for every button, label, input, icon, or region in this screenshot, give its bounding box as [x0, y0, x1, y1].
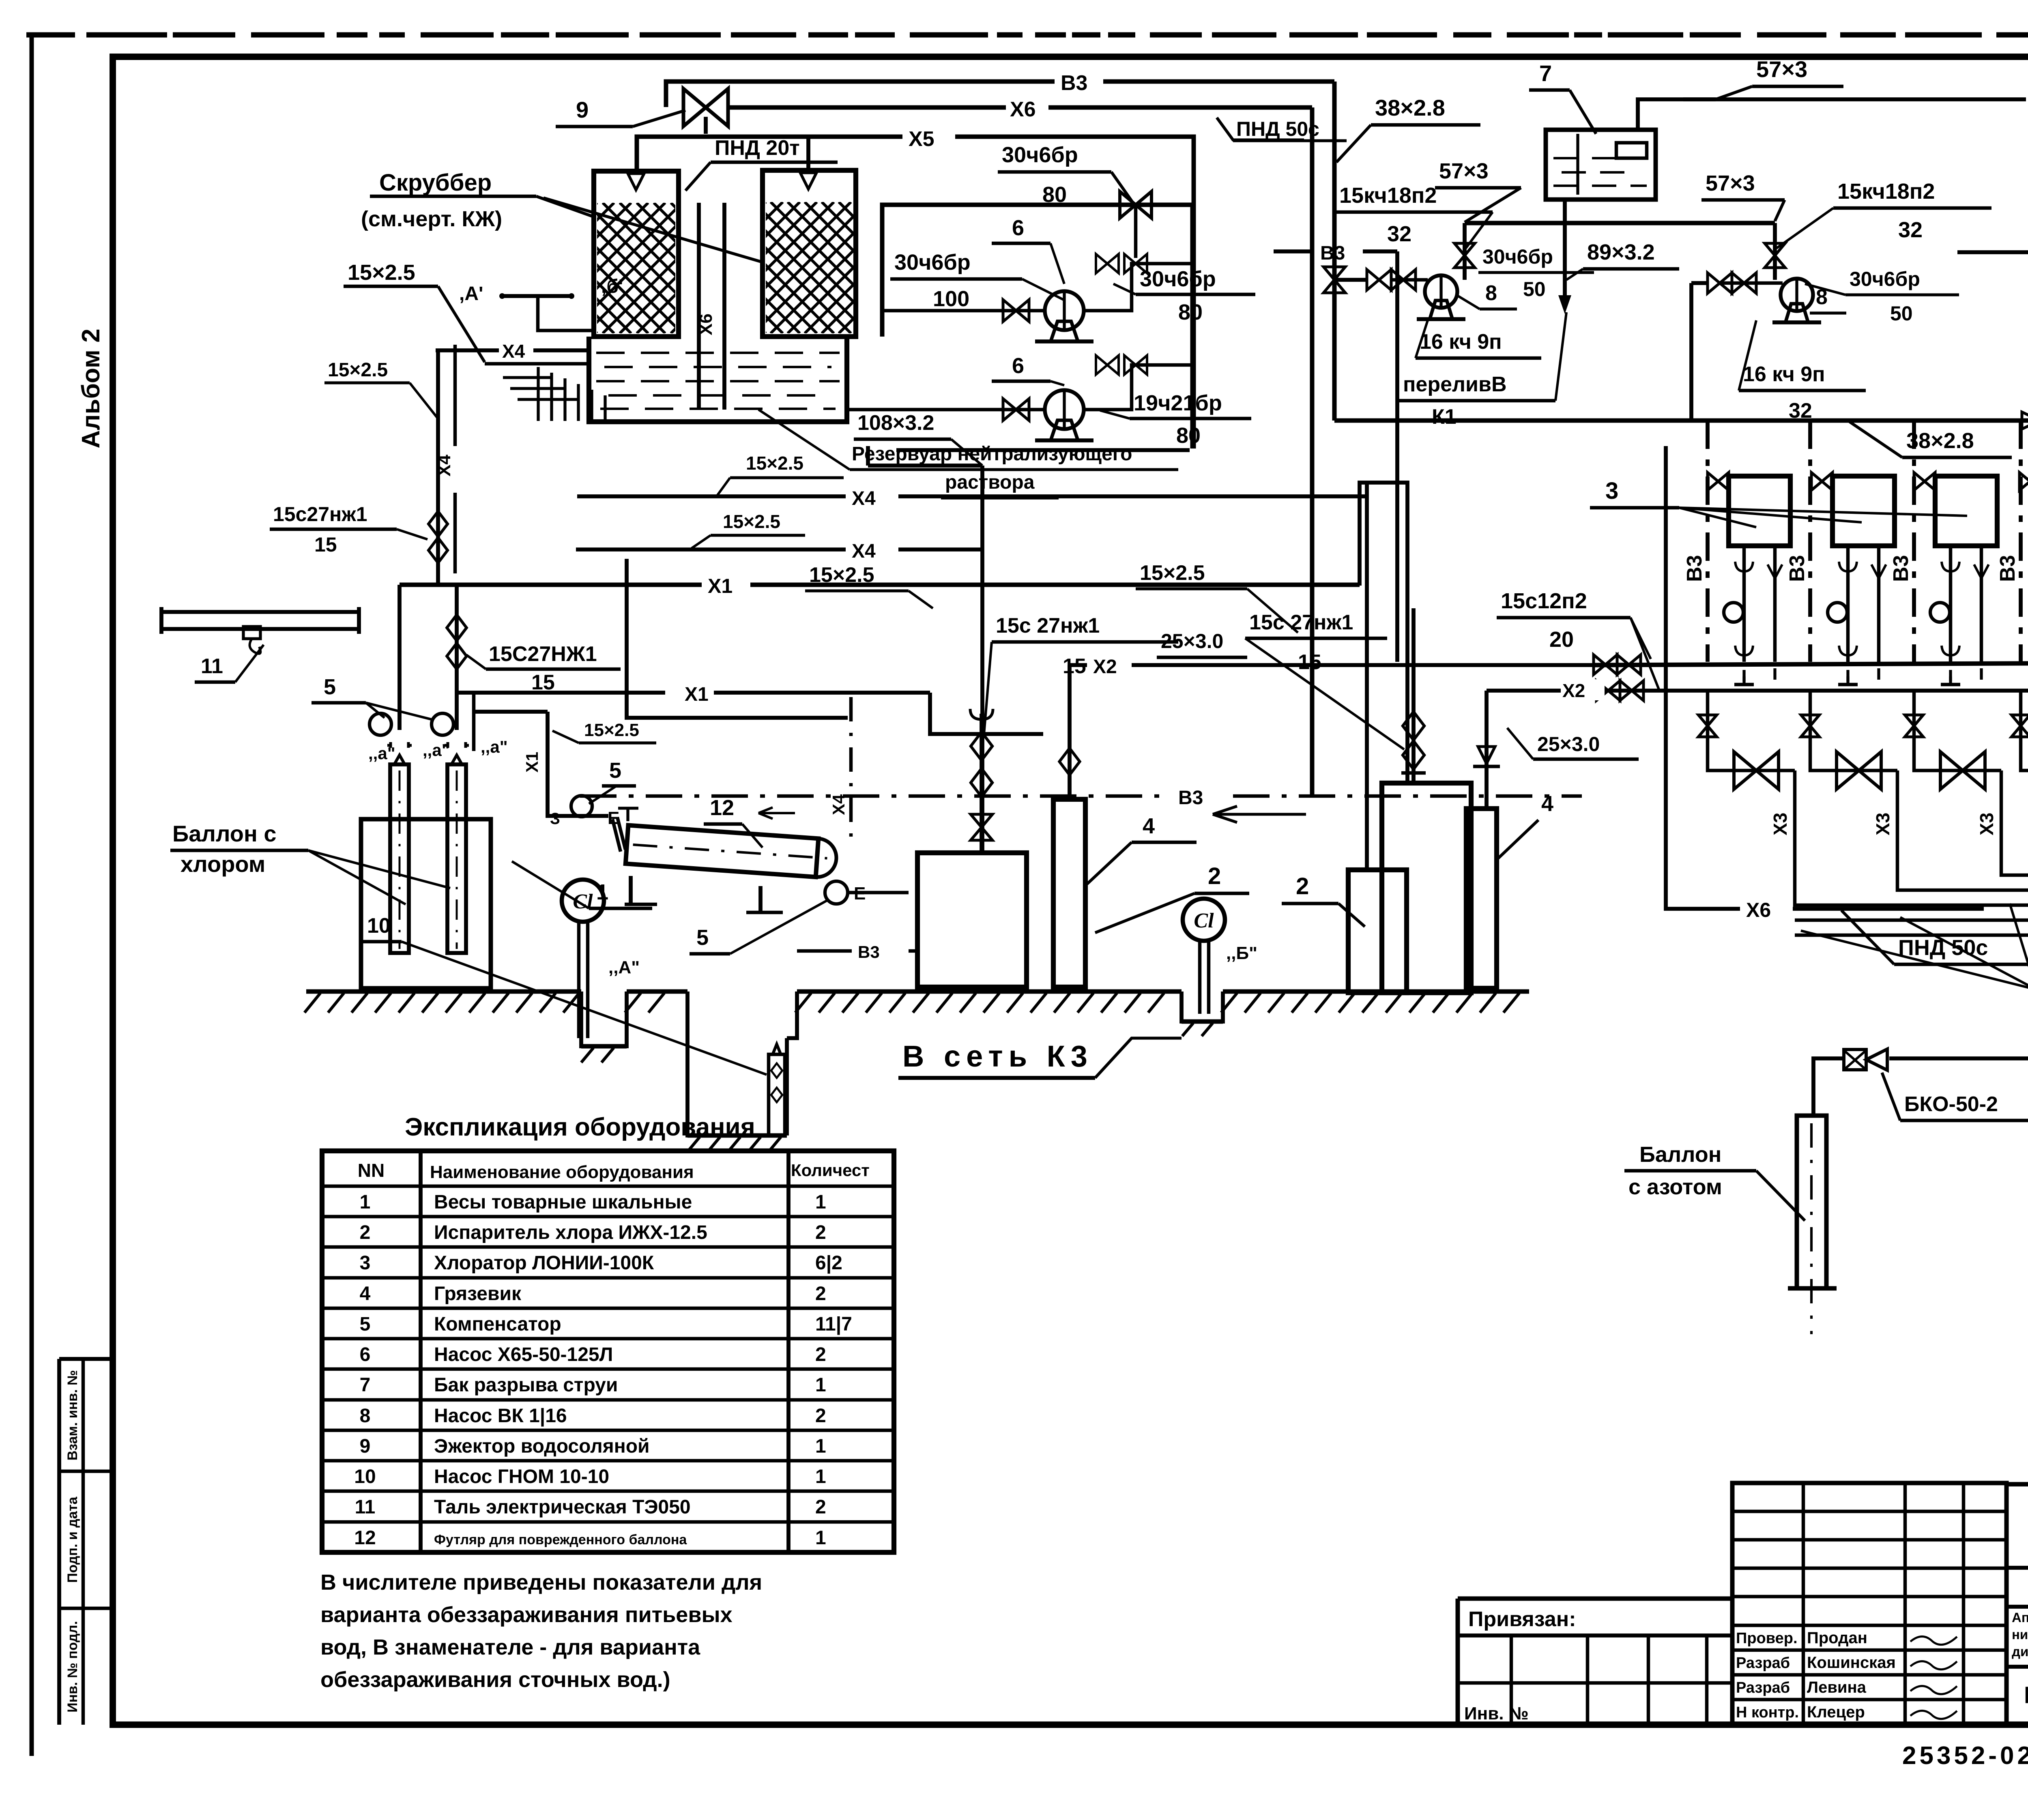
svg-text:25×3.0: 25×3.0	[1161, 630, 1223, 652]
svg-text:Разраб: Разраб	[1736, 1679, 1790, 1696]
svg-text:10: 10	[367, 914, 391, 938]
svg-text:15×2.5: 15×2.5	[746, 453, 803, 474]
svg-text:Х6: Х6	[1010, 98, 1036, 121]
svg-text:38×2.8: 38×2.8	[1906, 429, 1974, 453]
svg-text:В3: В3	[858, 942, 880, 962]
svg-text:8: 8	[1816, 285, 1828, 309]
svg-text:Принципиальная схема: Принципиальная схема	[2024, 1682, 2028, 1708]
svg-text:ния питьевых и сточных вод про: ния питьевых и сточных вод произво	[2012, 1627, 2028, 1642]
svg-text:Х4: Х4	[852, 488, 876, 509]
svg-text:108×3.2: 108×3.2	[857, 411, 934, 435]
svg-text:9: 9	[576, 97, 589, 122]
svg-text:32: 32	[1898, 218, 1923, 242]
svg-text:15: 15	[531, 671, 555, 694]
svg-text:8: 8	[360, 1405, 371, 1427]
svg-text:Наименование оборудования: Наименование оборудования	[430, 1162, 694, 1182]
svg-text:4: 4	[1143, 814, 1155, 838]
svg-text:переливВ: переливВ	[1403, 373, 1507, 396]
svg-text:15: 15	[314, 533, 337, 556]
svg-text:Н контр.: Н контр.	[1736, 1704, 1799, 1721]
svg-text:Х3: Х3	[1872, 813, 1893, 835]
svg-text:11: 11	[355, 1496, 376, 1518]
svg-text:ПНД 20т: ПНД 20т	[715, 136, 800, 160]
svg-text:Е: Е	[608, 808, 619, 828]
svg-text:NN: NN	[358, 1160, 385, 1181]
svg-text:Подп. и дата: Подп. и дата	[65, 1496, 80, 1583]
svg-text:2: 2	[815, 1344, 826, 1365]
svg-text:15×2.5: 15×2.5	[723, 511, 780, 532]
svg-text:хлором: хлором	[180, 851, 265, 877]
svg-text:4: 4	[360, 1283, 371, 1305]
svg-text:Х1: Х1	[522, 752, 541, 773]
svg-text:Таль электрическая ТЭ050: Таль электрическая ТЭ050	[434, 1496, 691, 1518]
svg-text:16 кч 9п: 16 кч 9п	[1420, 330, 1502, 354]
svg-text:Инв. № подл.: Инв. № подл.	[65, 1621, 80, 1713]
svg-text:Продан: Продан	[1807, 1629, 1867, 1647]
svg-text:57×3: 57×3	[1439, 159, 1489, 183]
svg-text:Инв. №: Инв. №	[1464, 1704, 1529, 1723]
svg-text:57×3: 57×3	[1706, 171, 1755, 195]
svg-text:11: 11	[201, 655, 223, 678]
svg-text:Провер.: Провер.	[1736, 1630, 1798, 1647]
svg-text:25×3.0: 25×3.0	[1537, 733, 1600, 755]
svg-text:Разраб: Разраб	[1736, 1655, 1790, 1672]
svg-text:1: 1	[815, 1191, 826, 1213]
svg-text:30ч6бр: 30ч6бр	[894, 250, 971, 275]
svg-text:16 кч 9п: 16 кч 9п	[1743, 363, 1825, 386]
svg-text:ПНД 50с: ПНД 50с	[1898, 936, 1988, 960]
svg-text:Футляр для поврежденного балло: Футляр для поврежденного баллона	[434, 1532, 687, 1547]
svg-text:8: 8	[1485, 281, 1497, 305]
svg-text:Весы товарные шкальные: Весы товарные шкальные	[434, 1191, 692, 1213]
svg-text:Баллон: Баллон	[1639, 1142, 1721, 1167]
svg-text:15×2.5: 15×2.5	[328, 359, 388, 381]
svg-text:30ч6бр: 30ч6бр	[1850, 268, 1920, 290]
svg-text:3: 3	[1605, 478, 1618, 504]
svg-text:15с27нж1: 15с27нж1	[273, 503, 367, 526]
svg-text:В3: В3	[1178, 787, 1203, 809]
svg-text:обеззараживания сточных вод.): обеззараживания сточных вод.)	[320, 1668, 670, 1692]
svg-text:(см.черт. КЖ): (см.черт. КЖ)	[361, 207, 502, 231]
svg-text:Бак разрыва струи: Бак разрыва струи	[434, 1374, 618, 1396]
svg-text:Х1: Х1	[685, 684, 709, 705]
svg-text:15×2.5: 15×2.5	[1140, 561, 1205, 585]
svg-text:20: 20	[1549, 627, 1574, 652]
svg-text:5: 5	[609, 758, 621, 783]
svg-text:12: 12	[710, 796, 734, 820]
svg-text:Х2: Х2	[1093, 656, 1117, 678]
svg-text:Испаритель хлора ИЖХ-12.5: Испаритель хлора ИЖХ-12.5	[434, 1222, 707, 1243]
svg-text:Левина: Левина	[1807, 1678, 1867, 1696]
svg-text:15кч18п2: 15кч18п2	[1837, 179, 1935, 204]
svg-text:15С27НЖ1: 15С27НЖ1	[489, 642, 597, 666]
svg-text:6: 6	[1012, 354, 1024, 378]
svg-text:15×2.5: 15×2.5	[809, 563, 874, 587]
svg-text:Клецер: Клецер	[1807, 1703, 1865, 1721]
svg-text:,,А": ,,А"	[608, 957, 640, 977]
svg-text:Баллон с: Баллон с	[172, 821, 277, 846]
svg-text:15с12п2: 15с12п2	[1501, 589, 1587, 613]
svg-text:Хлоратор ЛОНИИ-100К: Хлоратор ЛОНИИ-100К	[434, 1252, 654, 1274]
svg-text:Насос Х65-50-125Л: Насос Х65-50-125Л	[434, 1344, 613, 1365]
svg-text:2: 2	[815, 1405, 826, 1427]
svg-text:1: 1	[815, 1374, 826, 1396]
svg-text:15с 27нж1: 15с 27нж1	[996, 614, 1100, 637]
svg-text:Cl: Cl	[573, 890, 593, 913]
svg-text:Альбом 2: Альбом 2	[77, 328, 105, 448]
svg-text:30ч6бр: 30ч6бр	[1140, 267, 1216, 291]
svg-text:9: 9	[360, 1436, 371, 1457]
svg-text:15×2.5: 15×2.5	[348, 260, 415, 285]
svg-text:38×2.8: 38×2.8	[1375, 95, 1445, 120]
svg-text:19ч21бр: 19ч21бр	[1134, 391, 1222, 415]
svg-text:12: 12	[354, 1527, 376, 1549]
svg-text:Эжектор водосоляной: Эжектор водосоляной	[434, 1436, 650, 1457]
svg-text:1: 1	[815, 1466, 826, 1487]
svg-text:,,а": ,,а"	[481, 737, 508, 756]
svg-text:Скруббер: Скруббер	[379, 170, 492, 196]
svg-text:Х3: Х3	[1976, 813, 1997, 835]
svg-text:Х5: Х5	[909, 127, 935, 151]
svg-text:2: 2	[360, 1222, 371, 1243]
svg-text:15с 27нж1: 15с 27нж1	[1249, 611, 1353, 634]
svg-text:В3: В3	[1889, 555, 1913, 582]
svg-text:11|7: 11|7	[815, 1313, 852, 1335]
svg-text:В3: В3	[1996, 555, 2019, 582]
svg-text:30ч6бр: 30ч6бр	[1482, 245, 1553, 268]
svg-text:2: 2	[815, 1222, 826, 1243]
svg-text:15: 15	[1298, 650, 1321, 674]
svg-text:дительностью 2кг хлора в час.: дительностью 2кг хлора в час.	[2012, 1644, 2028, 1659]
svg-text:Компенсатор: Компенсатор	[434, 1313, 561, 1335]
svg-text:Привязан:: Привязан:	[1468, 1608, 1576, 1631]
svg-text:,б': ,б'	[601, 276, 623, 297]
svg-text:,А': ,А'	[459, 283, 483, 305]
svg-text:89×3.2: 89×3.2	[1587, 240, 1655, 264]
svg-text:6|2: 6|2	[815, 1252, 842, 1274]
svg-text:6: 6	[1012, 216, 1024, 240]
svg-text:Насос ГНОМ 10-10: Насос ГНОМ 10-10	[434, 1466, 609, 1487]
svg-text:2: 2	[1296, 873, 1309, 899]
svg-text:2: 2	[815, 1283, 826, 1305]
svg-text:5: 5	[696, 925, 709, 950]
svg-text:5: 5	[324, 675, 336, 699]
svg-text:БКО-50-2: БКО-50-2	[1904, 1092, 1998, 1116]
svg-text:Х6: Х6	[696, 313, 716, 335]
svg-text:ПНД 50с: ПНД 50с	[1236, 118, 1319, 140]
svg-text:Кошинская: Кошинская	[1807, 1654, 1896, 1672]
svg-text:50: 50	[1523, 278, 1546, 300]
svg-text:30ч6бр: 30ч6бр	[1002, 143, 1078, 167]
svg-text:80: 80	[1176, 423, 1201, 448]
svg-text:15×2.5: 15×2.5	[584, 720, 639, 740]
svg-text:50: 50	[1890, 302, 1913, 325]
svg-text:В3: В3	[1061, 71, 1087, 95]
svg-text:Количест: Количест	[791, 1161, 870, 1180]
svg-text:5: 5	[360, 1313, 371, 1335]
svg-text:10: 10	[354, 1466, 376, 1487]
svg-text:В3: В3	[1683, 555, 1706, 582]
svg-text:Грязевик: Грязевик	[434, 1283, 522, 1305]
svg-text:В сеть К3: В сеть К3	[902, 1039, 1093, 1073]
svg-text:57×3: 57×3	[1756, 56, 1807, 82]
svg-text:1: 1	[815, 1436, 826, 1457]
svg-text:80: 80	[1178, 300, 1203, 324]
svg-text:варианта обеззараживания питье: варианта обеззараживания питьевых	[320, 1603, 733, 1627]
svg-text:вод, В знаменателе - для вариа: вод, В знаменателе - для варианта	[320, 1635, 700, 1659]
svg-text:Резервуар нейтрализующего: Резервуар нейтрализующего	[852, 443, 1132, 465]
svg-text:,,Б": ,,Б"	[1226, 943, 1257, 963]
svg-text:Взам. инв. №: Взам. инв. №	[65, 1370, 80, 1460]
svg-text:3: 3	[360, 1252, 371, 1274]
svg-text:15кч18п2: 15кч18п2	[1339, 183, 1437, 208]
svg-text:Cl: Cl	[1194, 909, 1214, 932]
svg-text:раствора: раствора	[945, 472, 1035, 493]
svg-text:К1: К1	[1432, 405, 1457, 429]
svg-text:100: 100	[933, 287, 969, 311]
svg-text:4: 4	[1541, 792, 1553, 816]
svg-text:Х1: Х1	[708, 575, 733, 597]
svg-text:Х4: Х4	[434, 455, 454, 476]
svg-text:Х2: Х2	[1562, 680, 1585, 701]
svg-text:В3: В3	[1320, 243, 1345, 264]
svg-text:6: 6	[360, 1344, 371, 1365]
svg-text:Х4: Х4	[852, 541, 876, 562]
svg-text:Х3: Х3	[1770, 813, 1791, 835]
svg-text:Насос ВК 1|16: Насос ВК 1|16	[434, 1405, 567, 1427]
svg-text:2: 2	[815, 1496, 826, 1518]
svg-text:25352-02: 25352-02	[1902, 1742, 2028, 1770]
svg-text:2: 2	[1208, 863, 1221, 889]
svg-text:7: 7	[360, 1374, 371, 1396]
svg-text:Х4: Х4	[502, 341, 525, 362]
svg-text:В числителе приведены показате: В числителе приведены показатели для	[320, 1570, 762, 1595]
svg-text:З: З	[550, 810, 560, 828]
svg-text:1: 1	[360, 1191, 371, 1213]
svg-text:1: 1	[815, 1527, 826, 1549]
svg-text:7: 7	[1539, 60, 1552, 86]
svg-text:Х6: Х6	[1746, 899, 1771, 921]
svg-text:В3: В3	[1785, 555, 1809, 582]
svg-text:,,а": ,,а"	[423, 740, 450, 760]
svg-text:32: 32	[1387, 222, 1411, 246]
svg-text:с азотом: с азотом	[1628, 1175, 1722, 1199]
svg-text:Аппаратная для обеззаражива: Аппаратная для обеззаражива	[2012, 1610, 2028, 1625]
